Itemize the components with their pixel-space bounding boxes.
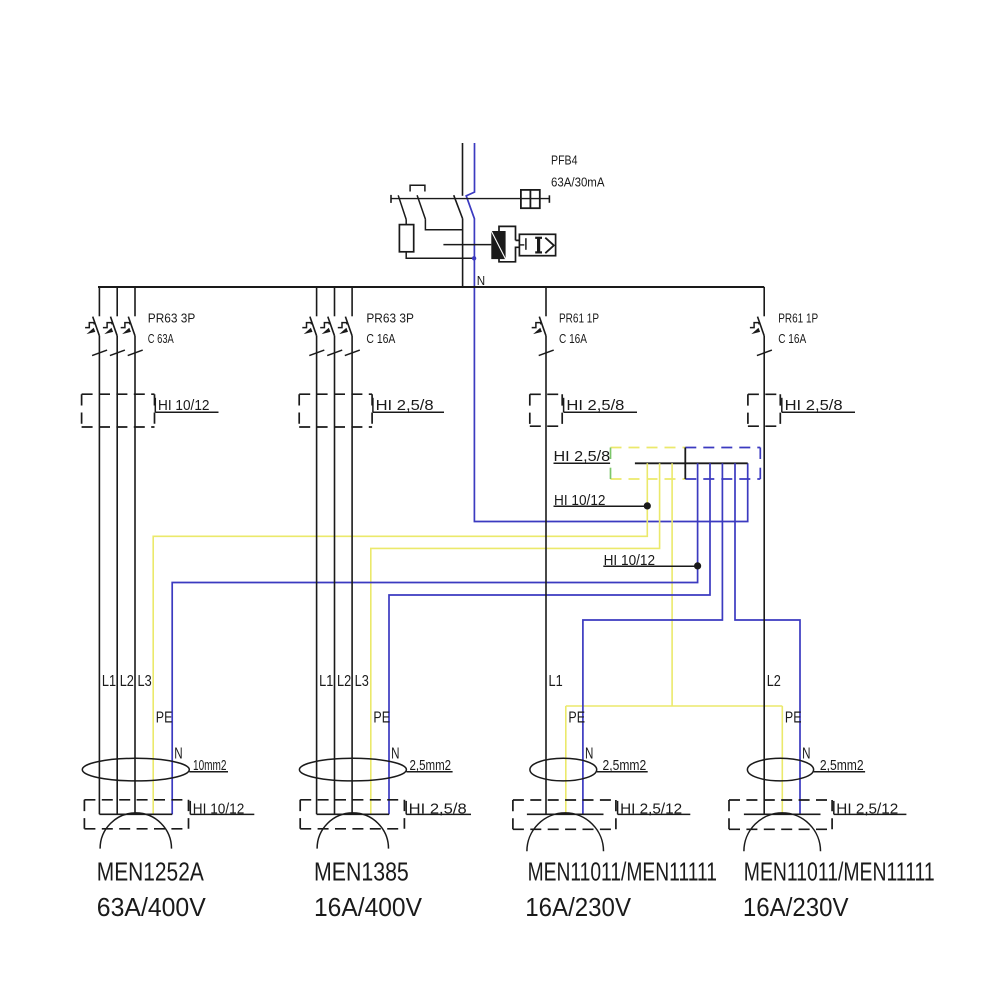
svg-text:N: N [477, 273, 485, 288]
dashed cable box F1 cable [82, 394, 155, 427]
svg-text:16A/400V: 16A/400V [314, 892, 423, 922]
svg-text:HI 2,5/12: HI 2,5/12 [620, 801, 682, 817]
current transformer housing outline [499, 226, 519, 261]
node coil/neutral junction [472, 256, 476, 260]
label HI 2,5/8 (F2 cable) [373, 398, 444, 414]
svg-text:HI 10/12: HI 10/12 [158, 398, 210, 414]
label HI 2,5/8 (F3 cable) [564, 398, 637, 414]
svg-text:HI 2,5/12: HI 2,5/12 [836, 801, 898, 817]
wire phase L3 to outlet [134, 336, 136, 815]
svg-text:L1: L1 [319, 673, 333, 690]
svg-text:16A/230V: 16A/230V [743, 892, 849, 922]
wire phase L2 to outlet [763, 336, 765, 815]
wire phase L1 to outlet [98, 336, 100, 815]
svg-text:C 16A: C 16A [559, 332, 587, 346]
outlet socket dome arc [744, 813, 821, 851]
circuit breaker F2 pole 2 pole at x=334.5 [320, 287, 342, 356]
wire incoming phase (black) top segment [462, 143, 464, 196]
circuit breaker F1 pole 2 pole at x=117.2 [103, 287, 125, 356]
junction box top edge PE (yellow dashed) [611, 447, 686, 449]
svg-text:MEN1385: MEN1385 [314, 857, 409, 887]
wire N outlet 1 (blue) [172, 463, 697, 814]
label HI 10/12 leader to PE1 wire [554, 493, 648, 509]
wire N outlet 2 (blue) [389, 463, 710, 814]
RCD test button box [521, 190, 540, 208]
RCD pole 2 blade [417, 195, 425, 219]
circuit breaker F1 pole 3 pole at x=135.0 [121, 287, 143, 356]
wire PE outlet 2 (yellow) [371, 463, 660, 814]
wire phase L2 to outlet [334, 336, 336, 815]
svg-text:L2: L2 [120, 673, 134, 690]
svg-text:PR63 3P: PR63 3P [148, 311, 196, 325]
cable ellipse [530, 758, 597, 781]
junction box divider [684, 448, 686, 480]
wire incoming neutral (blue) with switch blade, down to junction box [466, 143, 748, 522]
outlet socket dome arc [100, 813, 171, 849]
svg-text:PE: PE [373, 710, 390, 727]
wire CT sense line [443, 244, 491, 246]
outlet socket dome arc [317, 813, 388, 849]
svg-text:C 16A: C 16A [778, 332, 806, 346]
wire PE outlet 1 (yellow) [153, 463, 647, 814]
cable ellipse [299, 758, 406, 781]
CT core diagonal [491, 231, 505, 259]
svg-text:PFB4: PFB4 [551, 152, 578, 167]
bus bar [98, 286, 764, 288]
wire PE tee to outlets 3 and 4 [566, 705, 783, 707]
outlet terminal line [99, 813, 172, 815]
wire N outlet 4 (blue) [735, 463, 800, 814]
circuit breaker F2 pole 1 pole at x=316.6 [302, 287, 324, 356]
node dot on PE1 wire [644, 502, 651, 509]
current transformer core (filled) [491, 231, 505, 259]
junction box bottom edge PE (yellow dashed) [611, 478, 686, 480]
junction box bottom edge N (blue dashed) [685, 478, 760, 480]
svg-text:HI 10/12: HI 10/12 [193, 801, 245, 817]
svg-text:N: N [585, 746, 593, 763]
svg-text:PE: PE [785, 710, 802, 727]
wire phase L2 to outlet [116, 336, 118, 815]
label HI 2,5/12 (outlet cable) [834, 801, 907, 818]
wire PE outlet 3 drop [565, 706, 567, 814]
wire phase L3 to outlet [351, 336, 353, 815]
svg-text:N: N [802, 746, 810, 763]
outlet terminal line [317, 813, 389, 815]
svg-text:N: N [391, 746, 399, 763]
svg-text:MEN1252A: MEN1252A [97, 857, 205, 887]
svg-text:PR61 1P: PR61 1P [778, 311, 818, 325]
cable ellipse [747, 758, 813, 781]
svg-text:C 16A: C 16A [366, 332, 395, 346]
svg-text:PR61 1P: PR61 1P [559, 311, 599, 325]
label HI 2,5/12 (outlet cable) [618, 801, 691, 818]
circuit breaker F3 pole at x=546.0 [532, 287, 554, 356]
svg-text:HI 2,5/8: HI 2,5/8 [785, 398, 843, 414]
wire phase L1 to outlet [316, 336, 318, 815]
mechanical bracket [410, 185, 425, 191]
label HI 2,5/8 (junction feed) with underline leader [554, 449, 611, 465]
svg-text:63A/30mA: 63A/30mA [551, 174, 605, 189]
outlet terminal line [744, 813, 821, 815]
relay > chevron [545, 238, 554, 254]
outlet socket dome arc [527, 813, 604, 851]
wire pole2 down and right to phase [425, 219, 462, 230]
dashed cable box F3 cable [530, 394, 562, 426]
relay I glyph [537, 238, 540, 253]
label 2,5mm2 with underline [597, 757, 648, 774]
label HI 10/12 (outlet cable) [190, 801, 254, 818]
svg-text:HI 2,5/8: HI 2,5/8 [554, 449, 611, 465]
svg-text:MEN11011/MEN11111: MEN11011/MEN11111 [744, 857, 935, 887]
wire pole1 to coil [405, 220, 407, 225]
circuit breaker F2 pole 3 pole at x=352.1 [338, 287, 360, 356]
right terminal tick [548, 195, 550, 203]
node dot on N1 wire [694, 562, 701, 569]
label HI 2,5/8 (outlet cable) [406, 801, 471, 818]
wire N outlet 3 (blue) [583, 463, 723, 814]
main switch phase blade [454, 195, 463, 218]
relay contact tick [519, 244, 524, 246]
differential relay I> box [519, 234, 555, 255]
label HI 2,5/8 (F4 cable) [782, 398, 855, 414]
svg-text:HI 2,5/8: HI 2,5/8 [376, 398, 434, 414]
dashed cable box outlet cable [729, 800, 832, 829]
svg-text:N: N [174, 746, 182, 763]
svg-text:C 63A: C 63A [148, 332, 174, 346]
label 2,5mm2 with underline [814, 757, 866, 774]
wire phase down to bus [462, 219, 464, 287]
dashed cable box outlet cable [84, 800, 188, 829]
svg-text:L3: L3 [138, 673, 152, 690]
label 2,5mm2 with underline [406, 757, 452, 774]
outlet terminal line [527, 813, 604, 815]
svg-text:16A/230V: 16A/230V [525, 892, 631, 922]
svg-text:L1: L1 [102, 673, 116, 690]
cable ellipse [82, 758, 189, 781]
left terminal tick [390, 195, 392, 203]
label HI 10/12 (F1 cable) [155, 398, 218, 414]
dashed cable box F2 cable [299, 394, 372, 427]
svg-text:HI 2,5/8: HI 2,5/8 [566, 398, 624, 414]
svg-text:HI 2,5/8: HI 2,5/8 [409, 801, 467, 817]
RCD pole 1 blade [398, 195, 406, 219]
wire phase L1 to outlet [545, 336, 547, 815]
junction box top edge N (blue dashed) [685, 447, 760, 449]
svg-text:63A/400V: 63A/400V [97, 892, 207, 922]
junction box bus [635, 462, 748, 464]
dashed cable box outlet cable [300, 800, 404, 829]
svg-text:MEN11011/MEN11111: MEN11011/MEN11111 [528, 857, 717, 887]
svg-text:PR63 3P: PR63 3P [366, 311, 414, 325]
circuit breaker F4 pole at x=764.2 [750, 287, 772, 356]
svg-text:PE: PE [156, 710, 173, 727]
wire PE outlet 4 drop [781, 706, 783, 814]
svg-text:PE: PE [568, 710, 585, 727]
RCD mechanism line [391, 198, 549, 200]
wire coil return to neutral [406, 252, 474, 258]
svg-text:L2: L2 [767, 673, 781, 690]
dashed cable box F4 cable [748, 394, 780, 426]
label HI 10/12 leader to N1 wire [603, 553, 697, 569]
junction box left edge (green dashed) [610, 448, 612, 460]
wire PE feed outlets 3+4 (yellow) [671, 463, 673, 706]
circuit breaker F1 pole 1 pole at x=99.4 [85, 287, 107, 356]
svg-text:L3: L3 [355, 673, 369, 690]
label 10mm2 with underline [189, 757, 228, 774]
svg-text:L2: L2 [337, 673, 351, 690]
junction box right edge (blue dashed) [759, 448, 761, 460]
svg-text:L1: L1 [549, 673, 563, 690]
dashed cable box outlet cable [513, 800, 616, 829]
RCD trip coil [399, 225, 413, 252]
